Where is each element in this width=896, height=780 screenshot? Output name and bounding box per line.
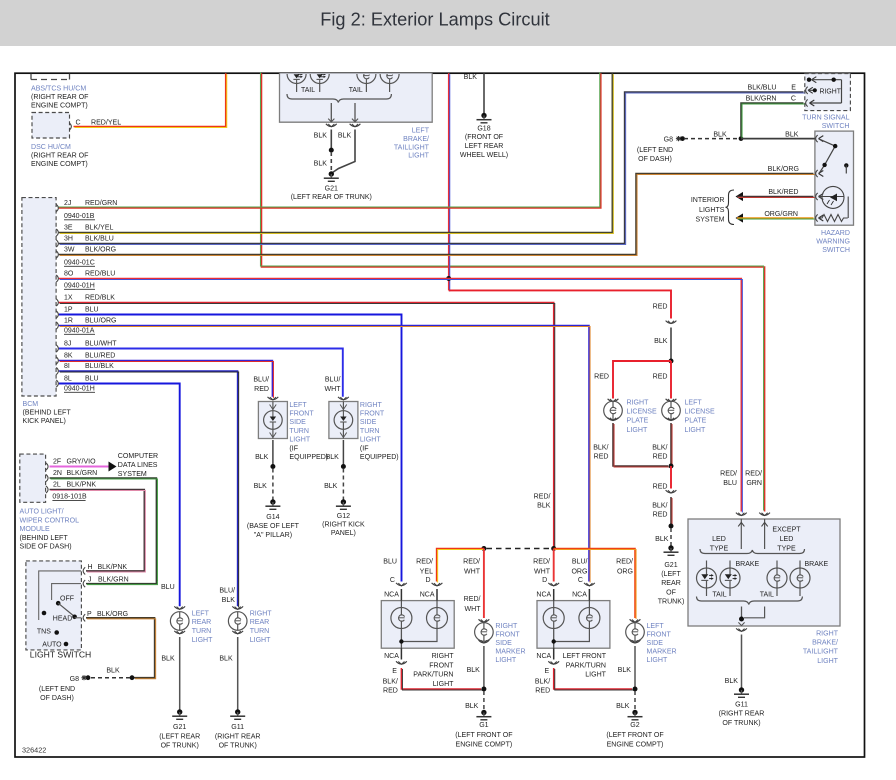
svg-text:BLK: BLK <box>324 483 338 490</box>
svg-text:G8: G8 <box>664 137 673 144</box>
svg-text:BLU/: BLU/ <box>219 588 235 595</box>
svg-text:(RIGHT REAR: (RIGHT REAR <box>719 711 765 718</box>
svg-text:BLK: BLK <box>655 536 669 543</box>
svg-text:TAIL: TAIL <box>712 591 726 598</box>
svg-text:J: J <box>88 577 92 584</box>
svg-text:BLK/PNK: BLK/PNK <box>67 482 97 489</box>
svg-text:YEL: YEL <box>420 569 433 576</box>
svg-text:LED: LED <box>780 536 794 543</box>
svg-text:Fig 2: Exterior Lamps Circuit: Fig 2: Exterior Lamps Circuit <box>320 9 549 29</box>
svg-text:LIGHT: LIGHT <box>817 658 838 665</box>
svg-text:8K: 8K <box>64 353 73 360</box>
svg-text:(LEFT FRONT OF: (LEFT FRONT OF <box>455 732 513 739</box>
svg-text:(FRONT OF: (FRONT OF <box>465 134 504 141</box>
svg-text:SIDE: SIDE <box>495 640 512 647</box>
svg-text:WHT: WHT <box>324 386 341 393</box>
svg-text:LEFT: LEFT <box>192 610 210 617</box>
svg-text:LIGHTS: LIGHTS <box>699 207 725 214</box>
svg-text:RED/BLK: RED/BLK <box>85 295 115 302</box>
svg-text:REAR: REAR <box>250 619 270 626</box>
svg-text:BLK: BLK <box>314 161 328 168</box>
svg-text:BLK: BLK <box>654 338 668 345</box>
svg-text:(IF: (IF <box>360 445 369 452</box>
svg-text:TYPE: TYPE <box>777 545 796 552</box>
svg-text:(LEFT FRONT OF: (LEFT FRONT OF <box>606 732 664 739</box>
svg-text:1R: 1R <box>64 318 73 325</box>
svg-text:TURN: TURN <box>360 428 380 435</box>
svg-text:BLK/BLU: BLK/BLU <box>85 236 114 243</box>
svg-text:RED: RED <box>594 453 609 460</box>
svg-text:BLK: BLK <box>616 703 630 710</box>
svg-text:TAIL: TAIL <box>349 87 363 94</box>
svg-text:RED: RED <box>653 304 668 311</box>
svg-text:BLU/: BLU/ <box>572 559 588 566</box>
svg-text:LEFT: LEFT <box>289 402 307 409</box>
svg-text:(LEFT END: (LEFT END <box>637 147 673 154</box>
svg-text:G21: G21 <box>173 724 186 731</box>
svg-text:AUTO LIGHT/: AUTO LIGHT/ <box>20 509 64 516</box>
svg-text:G18: G18 <box>477 126 490 133</box>
svg-text:ENGINE COMPT): ENGINE COMPT) <box>31 103 88 110</box>
svg-text:BLK: BLK <box>255 454 269 461</box>
svg-text:NCA: NCA <box>536 653 551 660</box>
svg-text:(RIGHT REAR OF: (RIGHT REAR OF <box>31 94 89 101</box>
svg-text:BLU: BLU <box>383 559 397 566</box>
svg-text:EQUIPPED): EQUIPPED) <box>360 454 399 461</box>
svg-text:G11: G11 <box>231 724 244 731</box>
svg-text:RED/: RED/ <box>463 559 480 566</box>
svg-text:8O: 8O <box>64 271 74 278</box>
svg-text:BRAKE/: BRAKE/ <box>812 639 838 646</box>
svg-text:LED: LED <box>712 536 726 543</box>
svg-text:0940-01A: 0940-01A <box>64 328 95 335</box>
svg-text:OF TRUNK): OF TRUNK) <box>219 743 257 750</box>
svg-text:RIGHT: RIGHT <box>627 399 650 406</box>
svg-text:(BASE OF LEFT: (BASE OF LEFT <box>247 523 300 530</box>
svg-text:REAR: REAR <box>192 619 212 626</box>
svg-text:BRAKE: BRAKE <box>805 561 829 568</box>
svg-text:SYSTEM: SYSTEM <box>696 216 725 223</box>
svg-text:G21: G21 <box>664 562 677 569</box>
svg-text:E: E <box>545 668 550 675</box>
svg-text:D: D <box>425 577 430 584</box>
svg-text:AUTO: AUTO <box>42 641 62 648</box>
svg-text:3W: 3W <box>64 247 75 254</box>
svg-text:RED: RED <box>535 688 550 695</box>
svg-text:"A" PILLAR): "A" PILLAR) <box>254 532 292 539</box>
svg-text:RIGHT: RIGHT <box>816 630 839 637</box>
svg-text:WIPER CONTROL: WIPER CONTROL <box>20 518 80 525</box>
svg-text:LIGHT: LIGHT <box>585 672 606 679</box>
svg-text:EQUIPPED): EQUIPPED) <box>289 454 328 461</box>
svg-text:BLK/ORG: BLK/ORG <box>97 611 128 618</box>
svg-text:GRY/VIO: GRY/VIO <box>67 459 97 466</box>
svg-text:BLU/: BLU/ <box>253 377 269 384</box>
svg-text:RED: RED <box>254 386 269 393</box>
svg-text:C: C <box>390 577 395 584</box>
svg-text:OF TRUNK): OF TRUNK) <box>161 743 199 750</box>
svg-text:RED: RED <box>383 688 398 695</box>
svg-text:BLK: BLK <box>314 132 328 139</box>
svg-text:326422: 326422 <box>22 746 46 755</box>
svg-text:BLK/GRN: BLK/GRN <box>746 96 777 103</box>
svg-text:E: E <box>392 668 397 675</box>
svg-text:PARK/TURN: PARK/TURN <box>413 672 453 679</box>
svg-text:BLK: BLK <box>537 502 551 509</box>
svg-text:OF DASH): OF DASH) <box>638 156 672 163</box>
svg-text:C: C <box>791 96 796 103</box>
svg-text:REAR: REAR <box>661 580 681 587</box>
svg-text:(LEFT: (LEFT <box>661 571 681 578</box>
svg-text:RIGHT: RIGHT <box>495 623 518 630</box>
svg-text:8L: 8L <box>64 376 72 383</box>
svg-text:BLU/: BLU/ <box>325 377 341 384</box>
svg-text:RED/: RED/ <box>745 470 762 477</box>
svg-text:PANEL): PANEL) <box>331 530 356 537</box>
svg-text:G21: G21 <box>325 186 338 193</box>
svg-text:RIGHT: RIGHT <box>250 610 273 617</box>
svg-text:ORG/GRN: ORG/GRN <box>764 211 798 218</box>
svg-text:LIGHT: LIGHT <box>495 657 516 664</box>
svg-text:LIGHT: LIGHT <box>627 427 648 434</box>
svg-text:ABS/TCS HU/CM: ABS/TCS HU/CM <box>31 86 86 93</box>
svg-text:LIGHT SWITCH: LIGHT SWITCH <box>30 650 91 660</box>
svg-text:NCA: NCA <box>536 591 551 598</box>
svg-text:2N: 2N <box>53 470 62 477</box>
svg-text:ENGINE COMPT): ENGINE COMPT) <box>31 161 88 168</box>
svg-text:BLK/: BLK/ <box>593 444 608 451</box>
svg-text:(IF: (IF <box>289 445 298 452</box>
svg-text:WHT: WHT <box>534 569 551 576</box>
svg-text:RED/GRN: RED/GRN <box>85 200 117 207</box>
svg-text:BLK/: BLK/ <box>652 502 667 509</box>
svg-text:BLK: BLK <box>713 131 727 138</box>
svg-text:LIGHT: LIGHT <box>433 681 454 688</box>
svg-text:OF: OF <box>666 589 676 596</box>
svg-text:BLK: BLK <box>222 597 236 604</box>
svg-text:BLK/RED: BLK/RED <box>768 189 798 196</box>
svg-text:EXCEPT: EXCEPT <box>772 527 801 534</box>
svg-text:0940-01C: 0940-01C <box>64 260 95 267</box>
svg-text:ORG: ORG <box>571 569 587 576</box>
svg-text:RED/: RED/ <box>616 559 633 566</box>
svg-text:BLK: BLK <box>725 678 739 685</box>
svg-text:BLK: BLK <box>106 667 120 674</box>
svg-text:BLK/: BLK/ <box>652 444 667 451</box>
svg-text:OF TRUNK): OF TRUNK) <box>722 720 760 727</box>
svg-text:LIGHT: LIGHT <box>289 437 310 444</box>
svg-text:SWITCH: SWITCH <box>822 247 850 254</box>
svg-text:LEFT: LEFT <box>412 127 430 134</box>
svg-text:NCA: NCA <box>384 653 399 660</box>
svg-text:BRAKE: BRAKE <box>736 561 760 568</box>
svg-text:LEFT: LEFT <box>685 399 703 406</box>
svg-text:FRONT: FRONT <box>495 631 520 638</box>
svg-text:BLK: BLK <box>618 667 632 674</box>
svg-text:SIDE: SIDE <box>647 640 664 647</box>
svg-text:BLK: BLK <box>161 656 175 663</box>
svg-text:(LEFT END: (LEFT END <box>39 686 75 693</box>
svg-text:G12: G12 <box>337 513 350 520</box>
svg-text:1X: 1X <box>64 295 73 302</box>
svg-text:0918-101B: 0918-101B <box>52 494 87 501</box>
svg-text:(RIGHT KICK: (RIGHT KICK <box>322 522 365 529</box>
svg-text:BLK/ORG: BLK/ORG <box>85 247 116 254</box>
svg-text:SIDE OF DASH): SIDE OF DASH) <box>20 544 72 551</box>
svg-text:BLK/PNK: BLK/PNK <box>98 564 128 571</box>
svg-text:BCM: BCM <box>23 401 39 408</box>
svg-text:C: C <box>76 120 81 127</box>
svg-text:WHT: WHT <box>464 569 481 576</box>
svg-text:LIGHT: LIGHT <box>250 637 271 644</box>
svg-text:HAZARD: HAZARD <box>821 230 850 237</box>
svg-text:SYSTEM: SYSTEM <box>118 471 147 478</box>
svg-text:TURN: TURN <box>192 628 212 635</box>
svg-text:8I: 8I <box>64 363 70 370</box>
svg-text:(LEFT REAR: (LEFT REAR <box>159 733 200 740</box>
svg-text:BLK/: BLK/ <box>535 679 550 686</box>
svg-text:BLU: BLU <box>723 480 737 487</box>
svg-text:BLU: BLU <box>85 307 99 314</box>
svg-text:BLK: BLK <box>326 454 340 461</box>
svg-text:G11: G11 <box>735 701 748 708</box>
svg-text:2J: 2J <box>64 200 71 207</box>
svg-text:BRAKE/: BRAKE/ <box>403 136 429 143</box>
svg-text:FRONT: FRONT <box>647 631 672 638</box>
svg-text:C: C <box>578 577 583 584</box>
svg-text:KICK PANEL): KICK PANEL) <box>23 418 66 425</box>
svg-text:BLK/GRN: BLK/GRN <box>67 470 98 477</box>
svg-text:INTERIOR: INTERIOR <box>691 197 725 204</box>
svg-text:RED/: RED/ <box>464 596 481 603</box>
svg-text:PLATE: PLATE <box>627 418 649 425</box>
svg-text:RED/: RED/ <box>534 493 551 500</box>
svg-text:RED: RED <box>653 374 668 381</box>
svg-text:G1: G1 <box>479 722 488 729</box>
svg-text:8J: 8J <box>64 341 71 348</box>
svg-text:MARKER: MARKER <box>495 648 525 655</box>
svg-text:BLU/ORG: BLU/ORG <box>85 318 117 325</box>
svg-text:1P: 1P <box>64 307 73 314</box>
svg-text:G14: G14 <box>266 514 279 521</box>
svg-text:LEFT REAR: LEFT REAR <box>465 143 504 150</box>
svg-text:RED/BLU: RED/BLU <box>85 271 115 278</box>
svg-text:RED: RED <box>653 483 668 490</box>
svg-text:BLK/YEL: BLK/YEL <box>85 225 114 232</box>
svg-text:G2: G2 <box>630 722 639 729</box>
svg-text:TYPE: TYPE <box>710 545 729 552</box>
svg-text:DATA LINES: DATA LINES <box>118 462 158 469</box>
svg-text:(RIGHT REAR OF: (RIGHT REAR OF <box>31 153 89 160</box>
svg-text:FRONT: FRONT <box>289 411 314 418</box>
svg-text:MARKER: MARKER <box>647 648 677 655</box>
svg-text:LEFT: LEFT <box>647 623 665 630</box>
svg-text:PLATE: PLATE <box>685 418 707 425</box>
svg-text:G8: G8 <box>70 676 79 683</box>
svg-text:BLK: BLK <box>467 667 481 674</box>
svg-text:RED: RED <box>653 511 668 518</box>
svg-text:(LEFT REAR OF TRUNK): (LEFT REAR OF TRUNK) <box>291 194 372 201</box>
svg-text:RIGHT: RIGHT <box>820 88 842 95</box>
svg-text:NCA: NCA <box>420 591 435 598</box>
svg-text:BLU/WHT: BLU/WHT <box>85 341 117 348</box>
svg-text:WHEEL WELL): WHEEL WELL) <box>460 152 508 159</box>
svg-text:BLK/GRN: BLK/GRN <box>98 577 129 584</box>
svg-text:P: P <box>87 611 92 618</box>
svg-text:RED/: RED/ <box>533 559 550 566</box>
svg-text:2F: 2F <box>53 459 61 466</box>
svg-text:(RIGHT REAR: (RIGHT REAR <box>215 733 261 740</box>
svg-text:PARK/TURN: PARK/TURN <box>566 662 606 669</box>
svg-text:ORG: ORG <box>617 569 633 576</box>
svg-text:BLU: BLU <box>161 584 175 591</box>
svg-text:BLK: BLK <box>254 483 268 490</box>
svg-text:DSC HU/CM: DSC HU/CM <box>31 144 71 151</box>
svg-text:BLK/BLU: BLK/BLU <box>748 85 777 92</box>
svg-text:TURN: TURN <box>250 628 270 635</box>
svg-text:H: H <box>88 564 93 571</box>
svg-text:BLU/RED: BLU/RED <box>85 353 115 360</box>
svg-text:BLK: BLK <box>464 74 478 81</box>
svg-text:RIGHT: RIGHT <box>432 653 455 660</box>
svg-text:RED/: RED/ <box>416 559 433 566</box>
svg-text:SIDE: SIDE <box>360 419 377 426</box>
svg-text:E: E <box>791 85 796 92</box>
svg-text:WHT: WHT <box>464 606 481 613</box>
svg-text:RED/YEL: RED/YEL <box>91 120 121 127</box>
svg-text:BLK/: BLK/ <box>383 679 398 686</box>
svg-text:BLK: BLK <box>465 703 479 710</box>
svg-text:SWITCH: SWITCH <box>822 123 850 130</box>
svg-text:BLK: BLK <box>338 132 352 139</box>
svg-text:2L: 2L <box>53 482 61 489</box>
svg-text:BLU: BLU <box>85 376 99 383</box>
svg-text:TAILLIGHT: TAILLIGHT <box>803 649 839 656</box>
svg-text:0940-01H: 0940-01H <box>64 283 95 290</box>
svg-text:BLK: BLK <box>785 131 799 138</box>
svg-text:TAILLIGHT: TAILLIGHT <box>394 144 430 151</box>
svg-text:ENGINE COMPT): ENGINE COMPT) <box>456 741 513 748</box>
svg-text:NCA: NCA <box>572 591 587 598</box>
svg-text:BLU/BLK: BLU/BLK <box>85 363 114 370</box>
svg-text:RIGHT: RIGHT <box>360 402 383 409</box>
svg-text:RED/: RED/ <box>720 470 737 477</box>
svg-text:LICENSE: LICENSE <box>685 409 715 416</box>
svg-text:MODULE: MODULE <box>20 526 50 533</box>
svg-text:COMPUTER: COMPUTER <box>118 453 158 460</box>
svg-text:0940-01B: 0940-01B <box>64 213 95 220</box>
svg-text:LIGHT: LIGHT <box>685 427 706 434</box>
svg-text:BLK: BLK <box>219 656 233 663</box>
svg-text:SIDE: SIDE <box>289 419 306 426</box>
svg-text:TURN SIGNAL: TURN SIGNAL <box>802 115 849 122</box>
svg-text:LIGHT: LIGHT <box>408 153 429 160</box>
svg-text:FRONT: FRONT <box>429 662 454 669</box>
svg-text:LEFT FRONT: LEFT FRONT <box>563 653 607 660</box>
svg-text:ENGINE COMPT): ENGINE COMPT) <box>607 741 664 748</box>
svg-text:(BEHIND LEFT: (BEHIND LEFT <box>20 535 69 542</box>
svg-text:OF DASH): OF DASH) <box>40 695 74 702</box>
svg-text:D: D <box>542 577 547 584</box>
svg-text:FRONT: FRONT <box>360 411 385 418</box>
svg-text:LIGHT: LIGHT <box>192 637 213 644</box>
svg-text:BLK/ORG: BLK/ORG <box>768 166 799 173</box>
svg-text:TNS: TNS <box>37 628 51 635</box>
svg-text:0940-01H: 0940-01H <box>64 386 95 393</box>
svg-text:LIGHT: LIGHT <box>360 437 381 444</box>
svg-text:OFF: OFF <box>60 596 74 603</box>
svg-text:RED: RED <box>653 453 668 460</box>
svg-text:3H: 3H <box>64 236 73 243</box>
svg-text:GRN: GRN <box>746 480 762 487</box>
svg-text:TAIL: TAIL <box>760 591 774 598</box>
svg-text:TRUNK): TRUNK) <box>658 599 685 606</box>
svg-text:HEAD: HEAD <box>53 616 72 623</box>
svg-text:(BEHIND LEFT: (BEHIND LEFT <box>23 410 72 417</box>
svg-text:TURN: TURN <box>289 428 309 435</box>
svg-text:LIGHT: LIGHT <box>647 657 668 664</box>
svg-text:3E: 3E <box>64 225 73 232</box>
svg-text:WARNING: WARNING <box>816 238 850 245</box>
svg-text:RED: RED <box>594 374 609 381</box>
svg-text:NCA: NCA <box>384 591 399 598</box>
svg-text:TAIL: TAIL <box>301 87 315 94</box>
svg-text:LICENSE: LICENSE <box>627 409 657 416</box>
